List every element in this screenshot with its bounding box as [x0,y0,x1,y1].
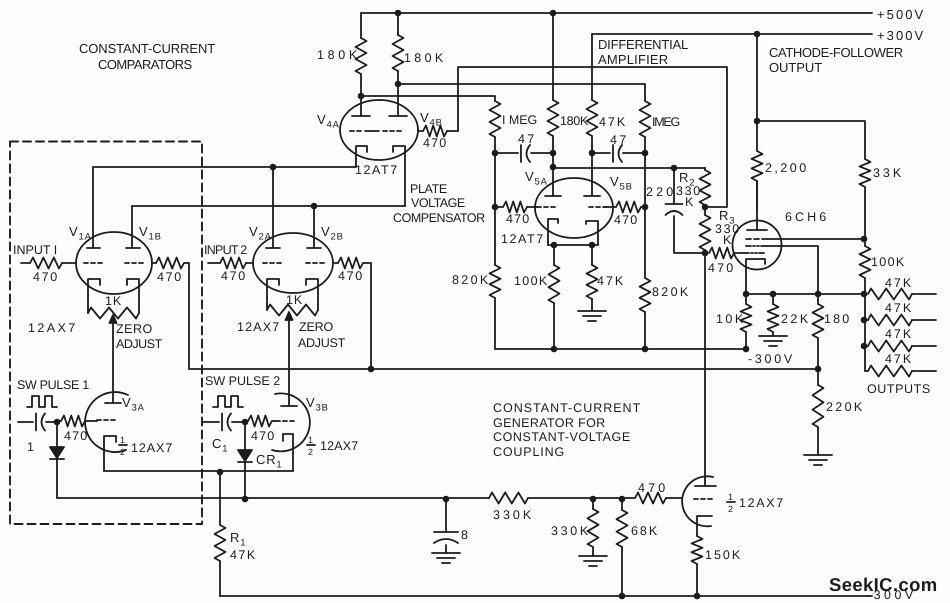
svg-text:C1: C1 [212,436,228,455]
label R1 47K [230,548,256,562]
label 47K V5B [599,115,626,129]
svg-text:12AX7: 12AX7 [739,496,784,510]
svg-text:330K: 330K [551,524,589,538]
label 330K shunt [551,524,589,538]
junction dot 220 cap branch [671,165,678,172]
label 33K [873,166,902,180]
tube V3B plate [281,405,297,407]
resistor 33K [860,159,871,239]
capacitor 47 (right) [592,145,645,162]
label V2B [321,224,344,243]
label 10K [716,312,744,326]
junction dot 180 top [815,291,822,298]
resistor 22K [768,294,779,336]
svg-text:ADJUST: ADJUST [298,336,346,350]
svg-text:SW PULSE 2: SW PULSE 2 [205,374,281,388]
label 470 V3A [64,429,88,443]
svg-text:CONSTANT-CURRENT: CONSTANT-CURRENT [493,401,641,415]
label 470 in1 [33,270,58,284]
label V3B [306,395,329,414]
label 68K [631,524,658,538]
label 6CH6 [785,210,827,224]
wire +500V rail [361,12,872,14]
svg-text:1K: 1K [105,294,122,308]
resistor 470 (V5B grid) [605,202,645,213]
resistor 820K (right) [640,207,651,349]
ground below 47K [578,311,606,321]
tube V5 envelope [535,178,613,238]
svg-text:470: 470 [251,429,275,443]
resistor 47K output2 [865,315,936,326]
tube 6CH6 control grid [744,252,764,254]
svg-text:47K: 47K [885,301,912,315]
junction dot cap47 a [492,150,499,157]
svg-text:12AT7: 12AT7 [355,163,398,177]
diode SW1 [50,422,64,498]
svg-text:COMPARATORS: COMPARATORS [98,57,193,72]
dashed comparator box [10,142,202,525]
label V1A [69,224,92,243]
resistor R3 330K [700,207,711,253]
capacitor input 1 [18,414,57,431]
junction dot R2-R3 [702,204,709,211]
resistor R1 47K [215,472,226,596]
resistor 470 (6CH6 grid) [709,248,744,259]
label 1 MEG left [502,113,538,127]
wire grid bus [57,497,489,499]
svg-text:ZERO: ZERO [116,322,153,336]
tube V3B envelope [272,393,310,451]
svg-text:220: 220 [646,185,674,199]
svg-text:OUTPUT: OUTPUT [769,60,823,75]
resistor 180K (V5A plate load) [548,13,559,153]
label R3 [719,208,735,227]
tube V1A cathode [88,279,100,308]
svg-text:V2A: V2A [249,224,272,243]
label 330K series [493,508,532,522]
label 47K V5gnd [597,274,624,288]
label 12AT7 (V5) [501,232,544,246]
label 150K [705,548,741,562]
wire V2B grid feedback [370,263,372,369]
junction dot V2A plate [270,164,277,171]
label V5A [525,169,548,188]
junction dot out row3 [861,343,868,350]
resistor 47K output1 [868,289,936,300]
tube V6 plate [695,485,716,487]
wire CF node to 33K [757,121,865,159]
junction dot cap47 b [550,150,557,157]
label 470 V3B [251,429,275,443]
label 470 in2 [221,269,246,283]
tube V2B cathode [306,279,318,305]
svg-text:-300V: -300V [748,352,793,366]
label CR1 [256,452,282,471]
svg-text:12AX7: 12AX7 [320,439,359,453]
svg-text:47K: 47K [885,352,912,366]
resistor 470 (gen grid) [635,493,682,504]
wire V4B grid to compensator node [458,67,727,207]
resistor 180K (V4B plate load) [393,13,404,84]
junction dot 500V-180K1 [395,10,402,17]
label 1K V2 [286,293,303,307]
ground below 220K [804,455,832,465]
svg-text:100K: 100K [514,274,548,288]
svg-text:2: 2 [120,447,126,457]
svg-text:CATHODE-FOLLOWER: CATHODE-FOLLOWER [769,45,904,60]
svg-text:47K: 47K [597,274,624,288]
junction dot out row2 [861,317,868,324]
resistor 470 (V3A grid) [57,416,97,427]
svg-text:820K: 820K [652,285,689,299]
svg-text:180: 180 [824,312,850,326]
tube V5A cathode [548,219,558,245]
label V1B [139,224,162,243]
svg-text:10K: 10K [716,312,744,326]
tube V2A grid [263,262,281,264]
svg-text:470: 470 [506,212,530,226]
svg-text:470: 470 [157,270,182,284]
svg-text:470: 470 [338,269,363,283]
svg-text:180K: 180K [317,48,358,62]
junction dot cathode 6CH6 [743,291,750,298]
resistor 470 (input 1) [21,258,76,269]
junction dot screen node [861,236,868,243]
tube V4 grid [350,130,401,132]
wire +300V rail [592,33,872,35]
svg-text:1: 1 [308,435,314,445]
ground below 8 cap [432,553,460,563]
label 470 V1B [157,270,182,284]
label V5B [610,174,633,193]
svg-text:22K: 22K [781,312,809,326]
wire V3 cathode tie [104,470,293,472]
tube V3A plate [105,402,121,404]
label 2200 [765,161,807,175]
tube V3B grid [276,420,294,422]
svg-text:VOLTAGE: VOLTAGE [411,196,466,210]
label C1 [212,436,228,455]
resistor 180K (V4A plate load) [356,13,367,96]
pulse waveform 2 [213,396,243,407]
node +500V label [877,7,924,22]
label SW PULSE 2 [205,374,281,388]
resistor 330K series [489,493,635,504]
resistor 220K [813,369,824,455]
junction dot V5 cathode a [551,242,558,249]
label -300V mid [748,352,793,366]
junction dot 180-220K [815,366,822,373]
label INPUT 2 [204,243,248,257]
junction dot V4B plate node [395,81,402,88]
svg-text:470: 470 [33,270,58,284]
svg-text:PLATE: PLATE [410,182,448,196]
label INPUT 1 [13,243,58,257]
svg-text:AMPLIFIER: AMPLIFIER [598,52,669,67]
svg-text:8: 8 [461,528,469,542]
resistor 10K [741,294,752,349]
wire V5A plate to R2 [553,167,705,169]
resistor 180 [813,294,824,369]
svg-text:IMEG: IMEG [652,115,681,129]
tube 6CH6 plate [747,181,767,230]
tube V4A plate [352,96,370,116]
junction dot CF node [754,118,761,125]
svg-text:CONSTANT-CURRENT: CONSTANT-CURRENT [79,41,216,56]
wire feedback bus [189,368,818,370]
svg-text:820K: 820K [452,273,489,287]
svg-text:470: 470 [708,261,734,275]
tube V3A grid [97,419,115,421]
svg-text:V5A: V5A [525,169,548,188]
resistor 68K [617,499,628,596]
label 12AX7 V2 [237,320,280,334]
svg-text:6CH6: 6CH6 [785,210,827,224]
ground below 22K [759,336,787,346]
label 47K out1 [885,276,912,290]
label R2 K [685,195,694,209]
label R2 330 [676,184,701,198]
label 470 V4B [423,136,447,150]
svg-text:1K: 1K [286,293,303,307]
svg-text:470: 470 [423,136,447,150]
resistor 100K (V5 cathode) [549,245,560,349]
junction dot 820K right tail [642,346,649,353]
tube V1 envelope [76,232,152,294]
junction dot +300V branch [754,31,761,38]
junction dot 150K bottom [694,593,701,600]
junction dot V5A plate wire [550,164,557,171]
label 470 V5A grid [506,212,530,226]
svg-text:180K: 180K [560,114,589,128]
title constant-current generator [493,401,641,459]
junction dot cap47 c [589,150,596,157]
resistor 470 (V2B grid) [333,258,371,269]
svg-text:12AX7: 12AX7 [28,321,76,335]
tube V4A cathode [356,146,367,167]
wire output column [864,294,866,371]
svg-text:1: 1 [728,492,734,502]
junction dot V5 cathode b [589,242,596,249]
svg-text:ADJUST: ADJUST [116,337,163,351]
svg-text:OUTPUTS: OUTPUTS [867,382,931,396]
svg-text:220K: 220K [826,400,863,414]
label 47K out4 [885,352,912,366]
resistor 820K (left) [490,207,501,349]
junction dot V5B grid node [642,204,649,211]
resistor 1 MEG (left) [490,101,501,153]
wire plate tie upper [93,166,356,168]
label zero adjust V1 [116,322,163,351]
junction dot cap47 d [642,150,649,157]
svg-text:470: 470 [614,213,638,227]
label 180K left [317,48,358,62]
tube V4 envelope [340,100,418,160]
label 100K V5 [514,274,548,288]
tube V4B plate [389,84,407,116]
tube V4B cathode [393,146,405,206]
svg-text:2: 2 [308,447,314,457]
svg-text:COMPENSATOR: COMPENSATOR [393,211,486,225]
tube 6CH6 screen grid [746,238,864,240]
label R3 330 [715,222,740,236]
tube 6CH6 suppressor grid [746,246,818,294]
tube V1B grid [125,262,143,264]
svg-text:+300V: +300V [877,28,924,43]
tube V2 envelope [253,233,333,293]
resistor 2200 [752,121,763,210]
svg-text:COUPLING: COUPLING [493,445,565,459]
svg-text:330K: 330K [493,508,532,522]
junction dot R3 bottom [702,250,709,257]
tube V2B grid [306,262,324,264]
svg-text:1: 1 [120,435,126,445]
junction dot V4A plate node [358,93,365,100]
resistor 470 (V3B grid) [245,416,276,427]
wire V4A plate to 1MEG [361,96,495,101]
svg-text:K: K [685,195,694,209]
junction dot SW1 [54,419,61,426]
label half 12AX7 V3B [307,435,359,457]
capacitor 47 (left) [495,145,553,162]
svg-text:DIFFERENTIAL: DIFFERENTIAL [598,37,689,52]
label 820K right [652,285,689,299]
label 1K V1 [105,294,122,308]
tube V2A cathode [267,279,279,305]
svg-text:+500V: +500V [877,7,924,22]
label cap value 1 [27,440,35,454]
title differential amplifier [598,37,689,67]
svg-text:V3B: V3B [306,395,329,414]
label V4B [420,110,443,129]
wire 1MEG-right to V5B grid node [644,153,646,207]
svg-text:I MEG: I MEG [502,113,538,127]
junction dot V2B plate [311,203,318,210]
label V3A [122,395,145,414]
tube V5B cathode [586,221,598,245]
wire V4B plate to 1MEG [398,84,645,101]
svg-text:2: 2 [728,504,734,514]
resistor 100K (output) [860,239,871,294]
label 12AX7 V1 [28,321,76,335]
node +300V label [877,28,924,43]
svg-text:12AT7: 12AT7 [501,232,544,246]
label half 12AX7 V6 [727,492,784,514]
junction dot CR1 bottom [242,496,249,503]
junction dot -300V end [743,346,750,353]
label half 12AX7 V3A [119,435,173,457]
wire R3 to generator plate [704,253,706,486]
wire 6CH6 cathode bus [746,293,865,295]
svg-text:47K: 47K [599,115,626,129]
svg-text:1: 1 [27,440,35,454]
label SW PULSE 1 [17,378,90,392]
svg-text:470: 470 [638,481,666,495]
label 470 gen [638,481,666,495]
capacitor 220 [666,168,706,253]
resistor 1MEG (right) [640,101,651,153]
svg-text:V4B: V4B [420,110,443,129]
junction dot 8cap [443,496,450,503]
svg-text:R1: R1 [230,530,246,549]
label 180 [824,312,850,326]
label 8 cap [461,528,469,542]
tube 6CH6 envelope [733,221,782,270]
wire plate tie lower [132,205,405,207]
diode CR1 [238,422,252,499]
label 47 left [518,132,535,146]
potentiometer 1K (V2) [267,305,318,407]
svg-text:68K: 68K [631,524,658,538]
junction dot 68K bottom [619,593,626,600]
label V4A [317,112,340,131]
svg-text:CR1: CR1 [256,452,282,471]
tube 6CH6 cathode [746,259,765,294]
wire 1MEG-left to V5A grid node [494,153,496,207]
svg-text:47K: 47K [885,327,912,341]
label 47K out3 [885,327,912,341]
svg-text:180K: 180K [404,51,444,65]
svg-text:47K: 47K [230,548,256,562]
pulse waveform 1 [27,396,57,407]
wire V1B grid feedback [188,263,190,369]
tube V1A grid [84,262,102,264]
title plate voltage compensator [393,182,486,225]
resistor 470 (V5A grid) [495,202,537,213]
resistor 470 (V4B grid) [418,126,458,137]
svg-text:CONSTANT-VOLTAGE: CONSTANT-VOLTAGE [493,430,631,444]
svg-text:V1B: V1B [139,224,162,243]
tube V3A envelope [85,392,128,452]
junction dot SW2 [242,419,249,426]
label -300V bottom [866,588,914,602]
wire -300V bottom rail [220,595,872,597]
tube V3A cathode [104,436,116,471]
svg-text:150K: 150K [705,548,741,562]
resistor R2 330K [700,168,711,207]
junction dot 330K vert [590,496,597,503]
resistor 470 (input 2) [208,258,253,269]
label 470 V2B [338,269,363,283]
svg-text:ZERO: ZERO [299,320,334,334]
svg-text:V4A: V4A [317,112,340,131]
junction dot 100K tail [551,346,558,353]
resistor 330K shunt [588,499,599,556]
label 22K [781,312,809,326]
title cathode-follower output [769,45,904,75]
svg-text:K: K [723,233,732,247]
tube V6 grid [694,498,712,500]
svg-text:47K: 47K [885,276,912,290]
svg-text:12AX7: 12AX7 [237,320,280,334]
junction dot out column [861,291,868,298]
label 820K left [452,273,489,287]
tube V2B plate [307,206,321,248]
svg-text:GENERATOR FOR: GENERATOR FOR [493,416,606,430]
label 470 6CH6 [708,261,734,275]
label 180K V5A [560,114,589,128]
tube V1B cathode [127,279,139,308]
label 47K out2 [885,301,912,315]
tube V2A plate [266,167,280,248]
junction dot 22K top [770,291,777,298]
tube V6 envelope [682,476,713,526]
svg-text:INPUT I: INPUT I [13,243,58,257]
tube V6 cathode [697,516,712,536]
label 470 V5B grid [614,213,638,227]
label R1 [230,530,246,549]
label OUTPUTS [867,382,931,396]
